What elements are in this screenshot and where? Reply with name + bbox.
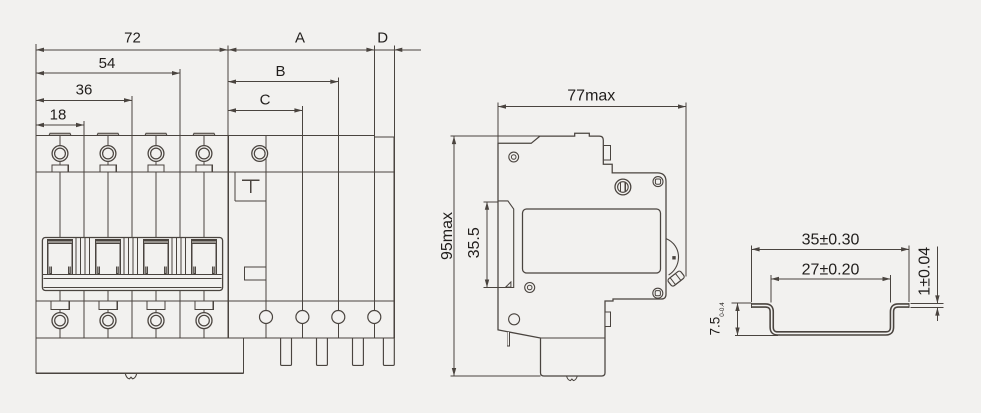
svg-text:35±0.30: 35±0.30 bbox=[802, 231, 860, 248]
svg-text:36: 36 bbox=[76, 82, 93, 99]
svg-text:77max: 77max bbox=[567, 88, 615, 105]
svg-text:54: 54 bbox=[99, 55, 116, 72]
svg-text:C: C bbox=[260, 92, 271, 109]
svg-text:A: A bbox=[295, 30, 305, 47]
svg-text:95max: 95max bbox=[439, 212, 456, 260]
svg-text:D: D bbox=[377, 30, 388, 47]
svg-text:72: 72 bbox=[124, 30, 141, 47]
svg-text:27±0.20: 27±0.20 bbox=[802, 261, 860, 278]
svg-text:1±0.04: 1±0.04 bbox=[916, 247, 933, 296]
svg-text:35.5: 35.5 bbox=[466, 227, 483, 258]
svg-text:18: 18 bbox=[50, 107, 67, 124]
svg-text:B: B bbox=[275, 63, 285, 80]
